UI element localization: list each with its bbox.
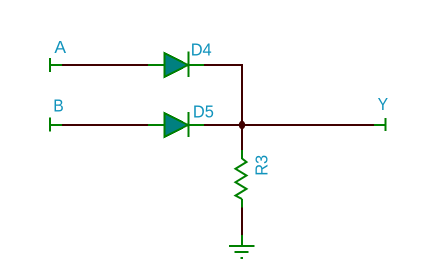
diode D5 anode pin wire [148, 124, 165, 126]
wire B to D5 anode [62, 124, 148, 126]
diode D5 cathode pin wire [190, 124, 205, 126]
diode D5 [165, 112, 190, 137]
svg-text:D5: D5 [193, 102, 214, 122]
output pin Y [374, 118, 387, 131]
input pin B [49, 118, 62, 132]
svg-text:B: B [53, 96, 64, 116]
diode D4 anode pin wire [148, 64, 165, 66]
wire D4 to corner [204, 64, 243, 66]
svg-text:R3: R3 [251, 155, 271, 176]
ground [229, 235, 255, 259]
diode D4 [165, 52, 190, 78]
svg-text:Y: Y [378, 94, 389, 114]
svg-text:D4: D4 [191, 40, 212, 60]
wire corner down to junction and resistor [241, 64, 243, 150]
input pin A [49, 58, 62, 72]
wire resistor to ground [241, 208, 243, 236]
resistor R3 top pin wire [241, 150, 243, 159]
wire A to D4 anode [62, 64, 148, 66]
wire D5 to output Y [204, 124, 374, 126]
svg-text:A: A [54, 37, 66, 57]
resistor R3 [236, 159, 247, 200]
resistor R3 bottom pin wire [241, 199, 243, 208]
diode D4 cathode pin wire [190, 64, 205, 66]
junction node dot at net Y [239, 121, 245, 129]
